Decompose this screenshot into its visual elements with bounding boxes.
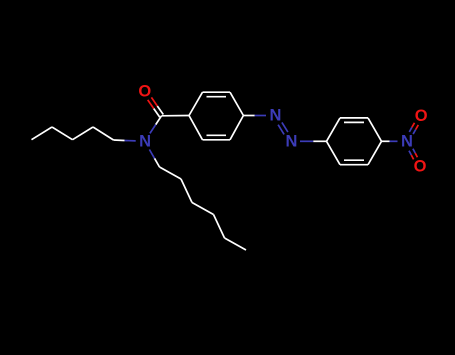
svg-text:O: O — [415, 107, 428, 125]
ring B edge R-BR — [368, 141, 382, 164]
svg-text:N: N — [269, 107, 281, 125]
ring A inner double bottom — [207, 134, 227, 136]
svg-text:N: N — [285, 132, 297, 150]
bond C7-N amide — [150, 116, 162, 134]
svg-text:O: O — [138, 82, 151, 100]
ring A edge TL-TR — [203, 91, 231, 93]
ring A edge BR-BL — [203, 139, 231, 141]
bond pentyl C4'-C3' — [52, 127, 73, 140]
bond C7-ringA — [162, 115, 190, 117]
ring A edge R-BR — [230, 116, 243, 140]
ring B inner double bottom — [344, 159, 364, 161]
bond hexyl C5-C6 — [225, 238, 247, 250]
double bond C7=O1 carbonyl — [148, 97, 164, 117]
svg-text:N: N — [401, 132, 413, 150]
bond hexyl C4-C5 — [214, 215, 225, 239]
nitro double bond N3=O3 — [409, 149, 417, 160]
bond C1'-N amide — [114, 139, 136, 142]
ring B edge L-TL — [327, 118, 341, 141]
bond hexyl C3-C4 — [192, 203, 214, 215]
svg-text:N: N — [139, 132, 151, 150]
ring A inner double top — [207, 96, 227, 98]
azo double bond N1=N2 — [278, 122, 288, 134]
ring B edge TL-TR — [340, 117, 368, 119]
bond pentyl C5'-C4' — [32, 127, 53, 140]
ring B edge TR-R — [368, 118, 382, 141]
nitro double bond N3=O2 — [409, 123, 418, 134]
bond hexyl C1-C2 — [160, 167, 182, 179]
ring A edge TR-R — [230, 92, 243, 115]
bond C1-N amide — [149, 150, 159, 168]
ring B edge BL-L — [327, 141, 341, 164]
bond hexyl C2-C3 — [181, 179, 192, 203]
bond pentyl C3'-C2' — [73, 127, 94, 140]
bond ringA-N1 — [243, 115, 266, 117]
bond N2-ringB — [300, 140, 327, 142]
ring B inner double top — [344, 121, 364, 123]
ring A edge BL-L — [189, 116, 203, 140]
ring B edge BR-BL — [340, 164, 368, 166]
bond ringB-N3 — [382, 140, 398, 142]
svg-text:O: O — [414, 157, 427, 175]
ring A edge L-TL — [189, 92, 203, 115]
bond pentyl C2'-C1' — [93, 127, 114, 140]
